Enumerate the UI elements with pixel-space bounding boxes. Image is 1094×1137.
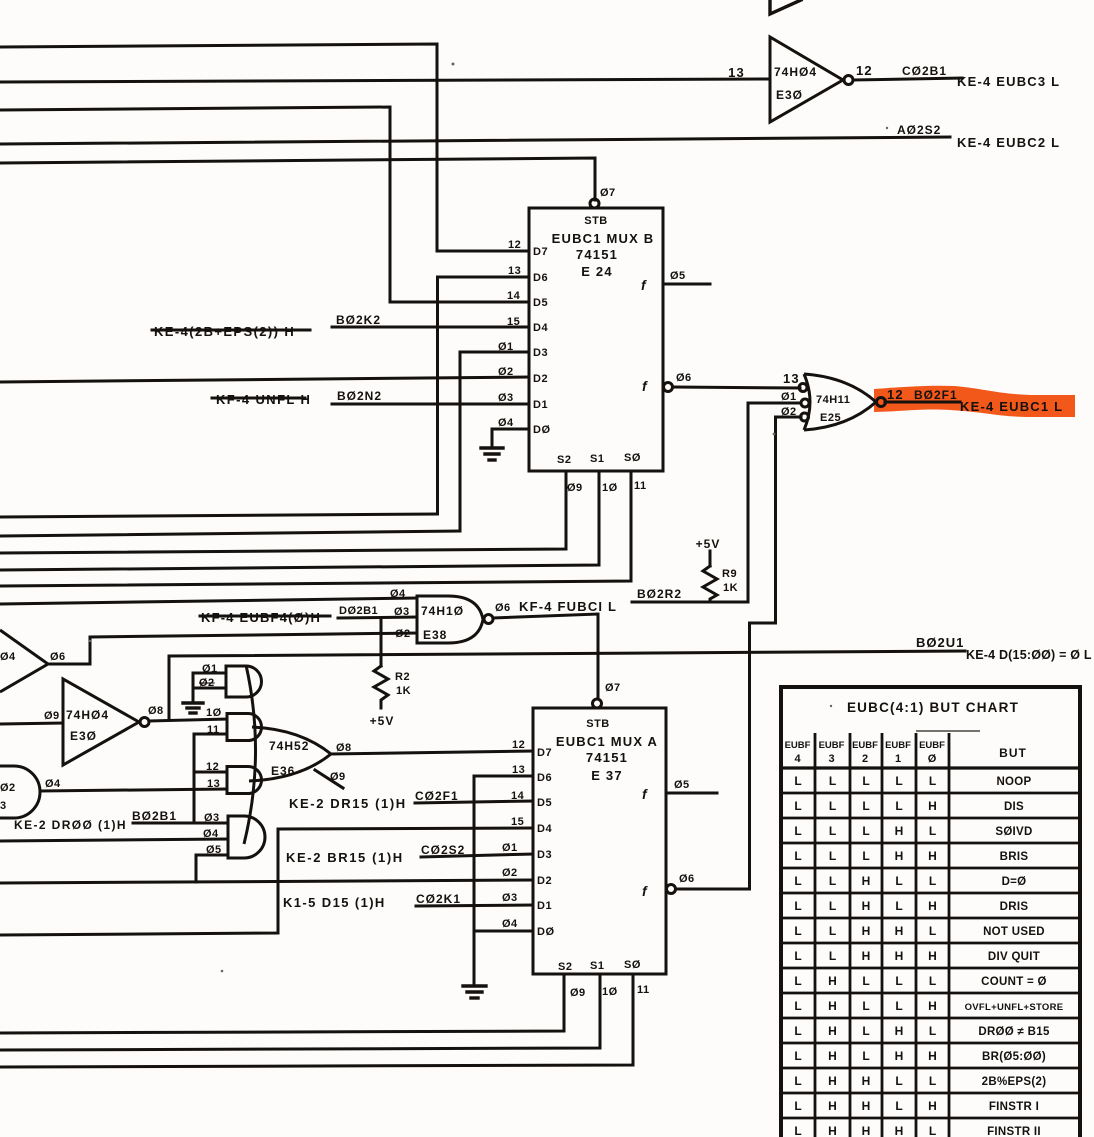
svg-text:DØ: DØ [537,926,555,938]
svg-text:74H1Ø: 74H1Ø [421,604,464,618]
svg-text:Ø6: Ø6 [495,602,511,614]
wire E25 output [885,401,960,404]
svg-text:Ø8: Ø8 [148,705,164,717]
wire mid bus2 to D3 [0,531,460,536]
svg-text:3: 3 [0,800,7,812]
svg-text:L: L [794,1074,801,1088]
resistor R2 1K pullup [370,618,411,728]
wire MUX B fbar to E25 input 13 [664,383,801,392]
svg-text:D4: D4 [533,322,548,334]
svg-text:Ø2: Ø2 [199,677,215,689]
wire B02R2 pullup net to E25 pin 01 vertical [632,403,800,602]
svg-text:L: L [895,899,902,913]
svg-text:COUNT = Ø: COUNT = Ø [981,976,1047,988]
svg-text:KE-2 DRØØ (1)H: KE-2 DRØØ (1)H [14,818,127,832]
wire bus5 to STB of MUX B [0,158,595,200]
wire B02K2 to D4 [332,326,529,329]
svg-text:14: 14 [507,290,521,302]
svg-text:H: H [928,849,937,863]
svg-text:D5: D5 [537,797,552,809]
svg-text:EUBC1 MUX A: EUBC1 MUX A [556,734,658,749]
svg-text:H: H [828,1099,837,1113]
svg-text:H: H [928,949,937,963]
table column lines [815,733,949,1137]
wire D0 to ground [492,429,529,447]
svg-text:Ø3: Ø3 [502,892,518,904]
svg-text:74H52: 74H52 [269,739,309,753]
pin numbers MUX A data inputs [502,739,525,930]
svg-text:D1: D1 [537,900,552,912]
svg-text:BØ2F1: BØ2F1 [914,388,958,402]
svg-text:4: 4 [794,753,801,765]
svg-text:L: L [895,1074,902,1088]
resistor R9 1K pullup [696,537,738,602]
svg-text:H: H [895,824,904,838]
svg-text:CØ2B1: CØ2B1 [902,64,947,78]
svg-text:13: 13 [728,65,745,80]
svg-text:L: L [895,874,902,888]
svg-text:L: L [829,874,836,888]
svg-text:1: 1 [895,753,901,765]
node struck text KE-4 (2B+EPS(2)) H [152,324,310,339]
svg-text:EUBF: EUBF [785,740,811,751]
pin numbers MUX B selects [567,480,647,494]
svg-text:H: H [928,1099,937,1113]
svg-text:1K: 1K [396,685,411,697]
mux U-E24 EUBC1 MUX B 74151 [529,199,663,471]
svg-text:L: L [862,999,869,1013]
node pin 12 B02F1 label [887,387,958,402]
svg-text:L: L [862,849,869,863]
svg-text:L: L [794,999,801,1013]
svg-text:Ø9: Ø9 [567,482,583,494]
pin numbers MUX A selects [570,984,650,999]
wire MUX A S2 to bus [0,974,564,1033]
wire D2 long from left edge [0,377,529,382]
svg-text:AØ2S2: AØ2S2 [897,123,941,137]
pin labels E38 inputs [390,588,411,640]
svg-text:H: H [828,1074,837,1088]
svg-text:H: H [828,1024,837,1038]
wire MUX A S1 to bus [0,974,600,1050]
wire bus4 EUBC2 out [0,137,950,144]
wire D3 vertical to mid bus [460,352,529,531]
svg-text:f: f [641,277,647,293]
svg-text:H: H [895,1049,904,1063]
table row lines [781,793,1080,1118]
svg-text:BØ2R2: BØ2R2 [637,587,682,601]
svg-text:L: L [829,949,836,963]
svg-text:1Ø: 1Ø [602,986,618,998]
svg-text:Ø2: Ø2 [0,782,16,794]
svg-text:L: L [895,799,902,813]
svg-text:D=Ø: D=Ø [1002,876,1027,888]
svg-text:12: 12 [512,739,525,751]
svg-text:L: L [794,824,801,838]
svg-text:H: H [828,974,837,988]
wire D02B1 to E38 pin 03 [338,617,417,618]
and-gate E36c inputs 12 13 [206,761,262,794]
svg-text:BØ2U1: BØ2U1 [916,635,964,650]
svg-text:Ø6: Ø6 [676,372,692,384]
svg-text:Ø9: Ø9 [330,771,346,783]
svg-text:D6: D6 [537,772,552,784]
svg-text:D2: D2 [533,373,548,385]
svg-text:L: L [929,1024,936,1038]
svg-text:12: 12 [887,387,904,402]
svg-text:L: L [929,874,936,888]
orange highlight over EUBC1 L output net [874,386,1075,417]
svg-text:D6: D6 [533,272,548,284]
svg-text:L: L [862,799,869,813]
svg-text:L: L [794,1124,801,1137]
svg-text:L: L [895,999,902,1013]
svg-text:NOOP: NOOP [996,776,1031,788]
svg-text:Ø9: Ø9 [44,710,60,722]
svg-text:K1-5 D15 (1)H: K1-5 D15 (1)H [283,895,386,910]
svg-text:L: L [794,949,801,963]
svg-text:KE-2 BR15 (1)H: KE-2 BR15 (1)H [286,850,404,865]
pin numbers MUX B data inputs [498,239,521,429]
svg-text:11: 11 [637,984,650,996]
svg-text:H: H [862,1099,871,1113]
svg-text:S2: S2 [558,961,572,973]
inverter partial top-left triangle [0,630,66,692]
svg-text:R9: R9 [722,568,737,580]
svg-text:f: f [642,378,648,394]
svg-text:H: H [895,1124,904,1137]
wire E30 output to EUBC3 label [853,78,962,80]
svg-text:L: L [829,799,836,813]
svg-text:12: 12 [508,239,521,251]
svg-text:H: H [828,1049,837,1063]
svg-text:DØ2B1: DØ2B1 [339,605,378,617]
svg-text:L: L [794,774,801,788]
svg-text:+5V: +5V [696,537,721,551]
wire bus6 to E38 input pin 04 [0,598,417,604]
pin labels E25 inputs [781,371,800,418]
svg-text:DRIS: DRIS [1000,901,1029,913]
wire MUX B S2 to bus [0,471,566,553]
svg-text:E 37: E 37 [591,768,623,783]
table faint line under title [916,730,980,732]
svg-text:H: H [895,849,904,863]
wire mid bus1 to D6 [0,514,438,517]
table header row [785,740,1027,765]
and-gate E36d inputs 03 04 05 [203,812,265,858]
svg-text:D2: D2 [537,875,552,887]
wire MUX A f output stub [666,792,717,795]
svg-text:E25: E25 [820,412,841,424]
svg-text:L: L [895,774,902,788]
svg-text:H: H [928,999,937,1013]
svg-text:74151: 74151 [586,750,628,765]
svg-text:KF-4 FUBCI L: KF-4 FUBCI L [519,599,617,614]
wire D0 to ground vertical [474,930,533,933]
svg-text:BR(Ø5:ØØ): BR(Ø5:ØØ) [982,1051,1046,1063]
svg-text:L: L [794,974,801,988]
wire MUX B S1 to bus [0,471,599,570]
svg-text:Ø3: Ø3 [498,392,514,404]
svg-text:74H11: 74H11 [816,394,850,406]
wire B02B1 to input 03 [133,822,228,825]
wire oval gate output to 74H52 input 13 [40,789,227,791]
svg-text:DIS: DIS [1004,801,1024,813]
svg-text:L: L [929,1074,936,1088]
wire C02F1 to D5 [415,801,533,803]
wire bus1 to D7 of MUX B [0,44,529,251]
svg-text:1Ø: 1Ø [206,707,222,719]
svg-text:f: f [642,786,648,802]
svg-text:E3Ø: E3Ø [776,88,803,102]
svg-text:Ø4: Ø4 [45,778,61,790]
svg-text:Ø7: Ø7 [605,682,621,694]
svg-text:H: H [862,1124,871,1137]
or-gate partial bottom-left [0,766,61,818]
svg-text:OVFL+UNFL+STORE: OVFL+UNFL+STORE [965,1002,1064,1013]
svg-text:Ø1: Ø1 [202,663,218,675]
svg-text:74HØ4: 74HØ4 [774,65,817,79]
svg-text:H: H [928,1049,937,1063]
svg-text:L: L [929,924,936,938]
svg-text:1K: 1K [723,582,738,594]
wire E30 lower input [0,723,63,724]
svg-text:H: H [862,949,871,963]
svg-text:SØIVD: SØIVD [995,826,1032,838]
svg-text:L: L [794,924,801,938]
svg-text:DRØØ ≠ B15: DRØØ ≠ B15 [978,1026,1050,1038]
svg-text:DØ: DØ [533,424,551,436]
svg-text:L: L [829,899,836,913]
svg-text:H: H [862,1074,871,1088]
mux U-E37 EUBC1 MUX A 74151 [533,699,666,974]
table header separator [781,766,1080,769]
svg-text:EUBC(4:1) BUT CHART: EUBC(4:1) BUT CHART [847,700,1019,715]
wire input 04 from left edge [0,839,228,841]
svg-text:H: H [928,799,937,813]
svg-text:L: L [862,824,869,838]
svg-text:DIV QUIT: DIV QUIT [988,951,1040,963]
wire E30 lower output to 74H52 input 10 [149,719,227,721]
svg-text:13: 13 [512,764,525,776]
nand U-E25 74H11 (neg-OR) [799,374,886,430]
svg-text:FINSTR II: FINSTR II [987,1126,1041,1137]
wire input 05 drop to D2 line [196,855,228,882]
svg-text:Ø4: Ø4 [498,417,514,429]
svg-text:Ø: Ø [928,753,937,765]
svg-text:Ø7: Ø7 [600,187,616,199]
svg-text:12: 12 [856,63,873,78]
wire B02N2 to D1 [332,403,529,406]
wire B02U1 long line to right edge [169,651,965,656]
svg-text:BUT: BUT [999,746,1027,760]
svg-text:L: L [794,1049,801,1063]
svg-text:13: 13 [783,371,800,386]
svg-text:KE-4 D(15:ØØ) = Ø L: KE-4 D(15:ØØ) = Ø L [966,648,1092,662]
wire bus2 EUBC3 to inverter E30 input [0,79,770,82]
svg-text:H: H [895,1024,904,1038]
svg-text:STB: STB [586,718,610,730]
node struck text KF-4 EUBF4(0)H [200,610,330,625]
svg-text:L: L [829,849,836,863]
speckles [89,63,888,973]
svg-text:11: 11 [634,480,647,492]
svg-text:S1: S1 [590,960,604,972]
svg-text:L: L [929,974,936,988]
inverter U-E30 lower 74H04 [44,679,164,765]
svg-text:Ø4: Ø4 [0,651,16,663]
svg-text:EUBF: EUBF [852,740,878,751]
ground at MUX B D0 [481,448,503,460]
svg-text:E36: E36 [271,764,295,778]
svg-text:Ø5: Ø5 [674,779,690,791]
svg-text:FINSTR I: FINSTR I [989,1101,1039,1113]
svg-text:L: L [794,799,801,813]
wire input 11 vertical [194,734,227,823]
svg-text:Ø9: Ø9 [570,987,586,999]
wire MUX A S0 to bus [0,974,633,1067]
and-gate E36a inputs grounded [193,663,262,702]
svg-text:1Ø: 1Ø [602,482,618,494]
svg-text:EUBF: EUBF [919,740,945,751]
svg-text:74HØ4: 74HØ4 [66,708,109,722]
svg-text:H: H [828,999,837,1013]
wire MUX B S0 to bus [0,471,631,586]
svg-text:L: L [829,824,836,838]
svg-text:D3: D3 [533,347,548,359]
svg-text:L: L [829,924,836,938]
svg-text:S2: S2 [557,454,571,466]
svg-text:L: L [794,874,801,888]
svg-text:74151: 74151 [576,247,618,262]
svg-text:E38: E38 [423,628,447,642]
svg-text:BØ2N2: BØ2N2 [337,389,382,403]
svg-text:D5: D5 [533,297,548,309]
svg-text:L: L [794,1099,801,1113]
svg-text:E 24: E 24 [581,264,613,279]
svg-text:E3Ø: E3Ø [70,729,97,743]
svg-text:Ø6: Ø6 [50,651,66,663]
svg-text:Ø1: Ø1 [502,842,518,854]
wire branch up to B02U1 line [168,656,171,720]
wire TL triangle output to E38 pin 02 [48,633,417,664]
svg-text:L: L [829,774,836,788]
svg-text:CØ2F1: CØ2F1 [415,789,459,803]
wire C02K1 to D1 [416,905,533,906]
svg-text:D4: D4 [537,823,552,835]
or-gate U-E36 74H52 [244,665,352,844]
svg-text:Ø5: Ø5 [670,270,686,282]
svg-text:Ø2: Ø2 [502,867,518,879]
svg-text:Ø2: Ø2 [781,406,797,418]
svg-text:13: 13 [207,778,220,790]
svg-text:S1: S1 [590,453,604,465]
svg-text:L: L [862,774,869,788]
svg-text:CØ2S2: CØ2S2 [421,843,465,857]
svg-text:EUBC1 MUX B: EUBC1 MUX B [552,231,655,246]
svg-text:KE-2 DR15 (1)H: KE-2 DR15 (1)H [289,796,407,811]
ground at E36a inputs [183,703,203,713]
svg-text:BRIS: BRIS [1000,851,1029,863]
inverter U-E30 top-right 74H04 [728,37,873,122]
svg-text:SØ: SØ [624,959,641,971]
wire D2 long from left edge [0,880,533,883]
svg-text:L: L [929,1124,936,1137]
table EUBC(4:1) BUT CHART outer border [781,687,1080,1137]
svg-text:KE-4 EUBC2 L: KE-4 EUBC2 L [957,135,1060,150]
svg-text:R2: R2 [395,671,410,683]
wire bus3 to D5 of MUX B [0,107,529,302]
svg-text:+5V: +5V [370,714,395,728]
svg-text:H: H [862,899,871,913]
svg-text:Ø4: Ø4 [502,918,518,930]
svg-text:H: H [862,874,871,888]
svg-text:BØ2K2: BØ2K2 [336,313,381,327]
table data rows [794,774,1063,1137]
svg-text:BØ2B1: BØ2B1 [132,809,177,823]
svg-text:L: L [929,774,936,788]
svg-text:H: H [895,924,904,938]
svg-text:NOT USED: NOT USED [983,926,1045,938]
wire D6 to ground vertical [474,776,533,985]
svg-text:L: L [862,1024,869,1038]
svg-text:L: L [794,849,801,863]
wire D4 exit to left edge [0,828,533,935]
svg-text:Ø4: Ø4 [390,588,406,600]
svg-text:H: H [895,949,904,963]
svg-text:L: L [895,974,902,988]
svg-text:D3: D3 [537,849,552,861]
svg-text:CØ2K1: CØ2K1 [416,892,461,906]
wire E36 output to MUX A D7 [331,751,533,754]
svg-text:15: 15 [511,816,524,828]
and-gate E36b inputs 10 11 [206,707,262,741]
svg-text:KE-4 EUBC1 L: KE-4 EUBC1 L [960,399,1063,414]
svg-text:L: L [794,1024,801,1038]
svg-text:L: L [862,1049,869,1063]
svg-text:SØ: SØ [624,452,641,464]
partial inverter cut at top edge [770,0,801,14]
svg-text:D7: D7 [533,246,548,258]
wire input 12 [194,771,227,774]
svg-text:STB: STB [584,215,608,227]
svg-text:L: L [929,824,936,838]
svg-text:KE-4 EUBC3 L: KE-4 EUBC3 L [957,74,1060,89]
nand U-E38 74H10 [417,596,493,643]
svg-text:2B%EPS(2): 2B%EPS(2) [982,1076,1047,1088]
wire MUX A fbar up to E25 pin 02 [667,417,802,894]
node struck text KF-4 UNFL H [212,392,311,407]
svg-text:f: f [642,883,648,899]
svg-text:L: L [794,899,801,913]
wire C02S2 to D3 [421,854,533,857]
svg-text:H: H [862,924,871,938]
svg-text:13: 13 [508,265,521,277]
svg-text:H: H [828,1124,837,1137]
wire D6 vertical to mid bus [438,277,530,514]
svg-text:D1: D1 [533,399,548,411]
svg-text:2: 2 [862,753,868,765]
svg-text:Ø8: Ø8 [336,742,352,754]
wire E38 output to MUX A STB [493,614,598,699]
svg-text:Ø6: Ø6 [679,873,695,885]
svg-text:L: L [895,1099,902,1113]
ground at MUX A D6 D0 [463,986,486,998]
svg-text:EUBF: EUBF [819,740,845,751]
svg-text:EUBF: EUBF [885,740,911,751]
svg-text:L: L [862,974,869,988]
svg-text:3: 3 [828,753,834,765]
